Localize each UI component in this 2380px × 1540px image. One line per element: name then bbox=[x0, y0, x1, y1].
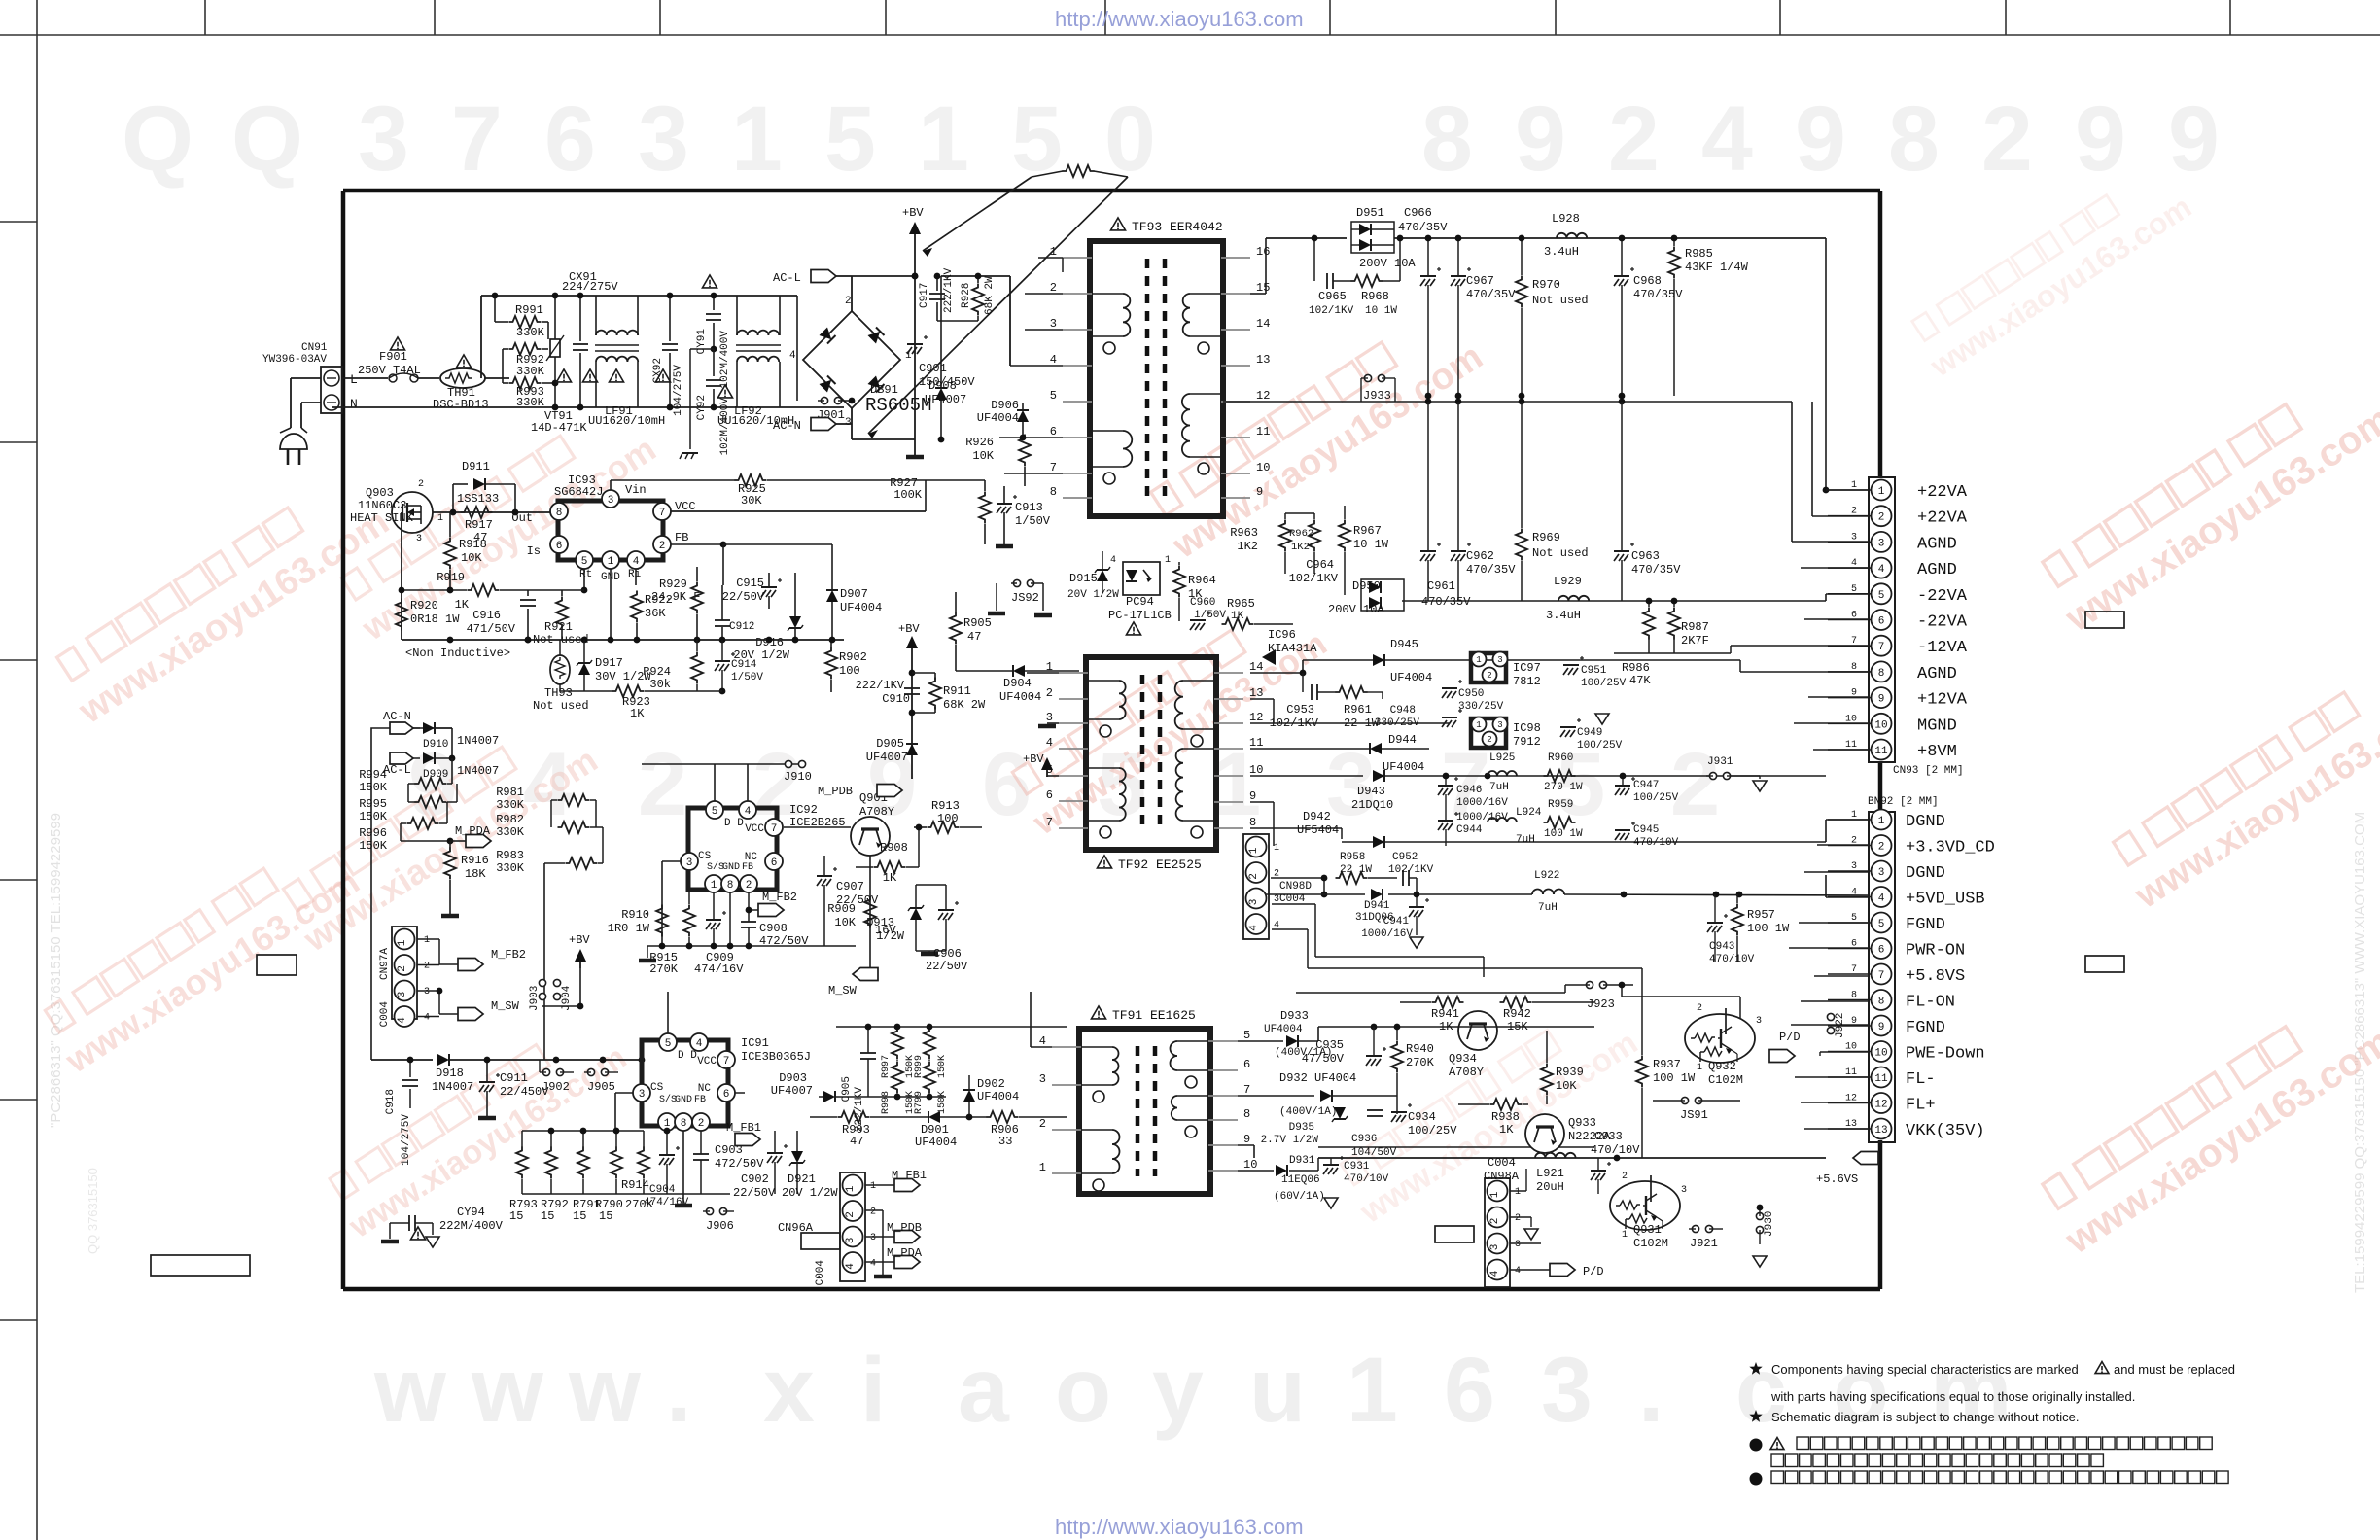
svg-text:2: 2 bbox=[1670, 735, 1720, 834]
svg-text:222/1KV: 222/1KV bbox=[856, 679, 905, 692]
svg-text:R957: R957 bbox=[1747, 908, 1775, 922]
svg-text:w: w bbox=[373, 1339, 447, 1442]
svg-text:3: 3 bbox=[416, 534, 422, 544]
svg-text:VKK(35V): VKK(35V) bbox=[1906, 1122, 1985, 1140]
svg-text:F901: F901 bbox=[379, 350, 407, 364]
svg-text:AGND: AGND bbox=[1917, 665, 1957, 683]
capacitor C907 bbox=[817, 875, 832, 877]
svg-text:1: 1 bbox=[1046, 660, 1053, 674]
svg-text:14D-471K: 14D-471K bbox=[531, 421, 587, 435]
svg-text:2: 2 bbox=[397, 965, 408, 972]
svg-text:C004: C004 bbox=[815, 1260, 826, 1286]
svg-text:2K7F: 2K7F bbox=[1681, 634, 1709, 647]
svg-text:C968: C968 bbox=[1633, 274, 1662, 288]
inductor L924 bbox=[1487, 818, 1517, 822]
wire bbox=[36, 0, 38, 1540]
svg-text:100/25V: 100/25V bbox=[1577, 740, 1623, 752]
svg-text:C904: C904 bbox=[649, 1184, 676, 1196]
svg-text:D908: D908 bbox=[928, 379, 957, 393]
svg-text:UF4007: UF4007 bbox=[925, 393, 966, 406]
svg-text:-22VA: -22VA bbox=[1917, 613, 1968, 632]
svg-text:2: 2 bbox=[1489, 1218, 1501, 1225]
svg-text:D942: D942 bbox=[1303, 810, 1331, 823]
svg-text:AGND: AGND bbox=[1917, 535, 1957, 553]
svg-text:15: 15 bbox=[1256, 281, 1270, 295]
wire bbox=[1795, 1076, 1869, 1078]
svg-text:4: 4 bbox=[1701, 87, 1753, 191]
svg-text:C901: C901 bbox=[919, 362, 947, 375]
svg-text:150K: 150K bbox=[359, 839, 388, 853]
svg-text:330K: 330K bbox=[496, 861, 525, 875]
svg-text:CS: CS bbox=[650, 1082, 664, 1094]
svg-text:3: 3 bbox=[1497, 720, 1502, 730]
svg-text:3: 3 bbox=[1248, 899, 1260, 906]
capacitor C935 bbox=[1366, 1055, 1382, 1057]
svg-text:P/D: P/D bbox=[1779, 1031, 1801, 1044]
svg-text:8: 8 bbox=[1878, 668, 1885, 680]
resistor R941 bbox=[1432, 997, 1464, 1008]
svg-text:C944: C944 bbox=[1456, 824, 1483, 836]
svg-text:1: 1 bbox=[918, 87, 969, 191]
svg-text:M_PDA: M_PDA bbox=[887, 1246, 923, 1260]
svg-text:FGND: FGND bbox=[1906, 916, 1945, 934]
svg-text:IC92: IC92 bbox=[789, 803, 818, 817]
svg-text:12: 12 bbox=[1874, 1099, 1887, 1110]
svg-text:GND: GND bbox=[722, 862, 740, 873]
svg-text:200V 10A: 200V 10A bbox=[1359, 257, 1416, 270]
svg-text:D943: D943 bbox=[1357, 785, 1385, 798]
svg-text:BN92 [2 MM]: BN92 [2 MM] bbox=[1868, 796, 1939, 808]
svg-text:R917: R917 bbox=[465, 518, 493, 532]
svg-text:6: 6 bbox=[1243, 1058, 1250, 1071]
svg-text:22/50V: 22/50V bbox=[926, 960, 968, 973]
svg-text:AC-N: AC-N bbox=[383, 710, 411, 723]
svg-text:7: 7 bbox=[1046, 816, 1053, 829]
jumper J930 bbox=[1756, 1212, 1763, 1219]
svg-text:C102M: C102M bbox=[1633, 1237, 1668, 1250]
svg-text:TF92 EE2525: TF92 EE2525 bbox=[1118, 857, 1202, 872]
svg-text:C004: C004 bbox=[379, 1001, 391, 1028]
svg-text:33: 33 bbox=[998, 1135, 1012, 1148]
svg-text:30k: 30k bbox=[649, 678, 671, 691]
svg-text:R909: R909 bbox=[827, 902, 856, 916]
svg-text:1: 1 bbox=[608, 556, 614, 568]
svg-text:200V 10A: 200V 10A bbox=[1328, 603, 1384, 616]
svg-text:5: 5 bbox=[1050, 389, 1057, 402]
svg-text:M_FB2: M_FB2 bbox=[491, 948, 526, 962]
svg-text:270K: 270K bbox=[649, 962, 679, 976]
svg-text:2: 2 bbox=[1274, 869, 1279, 880]
svg-text:Is: Is bbox=[527, 544, 541, 558]
svg-text:C960: C960 bbox=[1190, 597, 1215, 609]
svg-text:VCC: VCC bbox=[697, 1056, 717, 1067]
svg-text:6: 6 bbox=[1878, 944, 1885, 956]
svg-text:2: 2 bbox=[1487, 671, 1491, 681]
fuse F901 bbox=[390, 337, 404, 350]
svg-text:2: 2 bbox=[845, 1211, 857, 1218]
svg-text:3.4uH: 3.4uH bbox=[1544, 245, 1579, 259]
svg-text:C902: C902 bbox=[741, 1172, 769, 1186]
net flag bbox=[1853, 1152, 1878, 1165]
resistor R993 bbox=[509, 377, 542, 389]
svg-text:C933: C933 bbox=[1594, 1130, 1623, 1143]
svg-text:L928: L928 bbox=[1552, 212, 1580, 226]
svg-text:QQ 376315150: QQ 376315150 bbox=[86, 1168, 100, 1254]
svg-text:C910: C910 bbox=[882, 692, 910, 706]
resistor R937 bbox=[1636, 1056, 1648, 1088]
svg-text:C947: C947 bbox=[1633, 780, 1659, 791]
wire bbox=[1801, 1102, 1869, 1103]
svg-text:D935: D935 bbox=[1289, 1122, 1314, 1134]
svg-text:UF4004: UF4004 bbox=[915, 1136, 957, 1149]
svg-text:11N60C3: 11N60C3 bbox=[358, 499, 406, 512]
svg-text:7: 7 bbox=[1878, 642, 1885, 653]
svg-text:100: 100 bbox=[839, 664, 860, 678]
svg-text:D905: D905 bbox=[876, 737, 904, 751]
svg-text:2: 2 bbox=[1039, 1117, 1046, 1131]
svg-text:11EQ06: 11EQ06 bbox=[1281, 1174, 1320, 1186]
svg-text:3: 3 bbox=[845, 417, 852, 429]
svg-text:AC-N: AC-N bbox=[773, 419, 801, 433]
svg-text:AC-L: AC-L bbox=[383, 763, 411, 777]
svg-text:470/35V: 470/35V bbox=[1421, 595, 1471, 609]
svg-text:1R0 1W: 1R0 1W bbox=[608, 922, 650, 935]
svg-text:2: 2 bbox=[1515, 1213, 1521, 1224]
svg-text:R965: R965 bbox=[1227, 597, 1255, 611]
wire bbox=[1791, 402, 1793, 542]
svg-text:14: 14 bbox=[1249, 660, 1263, 674]
svg-text:C913: C913 bbox=[1015, 501, 1043, 514]
capacitor C931 bbox=[1323, 1164, 1339, 1166]
svg-text:5: 5 bbox=[1243, 1029, 1250, 1042]
svg-text:R982: R982 bbox=[496, 813, 524, 826]
svg-text:8: 8 bbox=[1050, 485, 1057, 499]
svg-text:R958: R958 bbox=[1340, 852, 1365, 863]
wire bbox=[1730, 646, 1732, 653]
svg-text:UF4004: UF4004 bbox=[977, 411, 1019, 425]
svg-text:3: 3 bbox=[1541, 1339, 1592, 1442]
svg-text:HEAT SINK: HEAT SINK bbox=[350, 511, 414, 525]
svg-text:+22VA: +22VA bbox=[1917, 509, 1968, 528]
svg-text:C102M: C102M bbox=[1708, 1073, 1743, 1087]
svg-text:JS92: JS92 bbox=[1011, 591, 1039, 605]
svg-text:1: 1 bbox=[731, 87, 783, 191]
svg-text:R938: R938 bbox=[1491, 1110, 1520, 1124]
svg-text:222/1KV: 222/1KV bbox=[943, 267, 955, 313]
capacitor C944 bbox=[1438, 820, 1453, 822]
svg-text:L925: L925 bbox=[1489, 752, 1515, 764]
svg-text:D901: D901 bbox=[921, 1123, 949, 1137]
svg-text:http://www.xiaoyu163.com: http://www.xiaoyu163.com bbox=[1055, 7, 1304, 31]
svg-text:2: 2 bbox=[870, 1207, 876, 1218]
svg-text:10 1W: 10 1W bbox=[1365, 305, 1397, 317]
svg-text:4: 4 bbox=[1110, 555, 1116, 566]
svg-text:UF5404: UF5404 bbox=[1297, 823, 1339, 837]
svg-text:D945: D945 bbox=[1390, 638, 1418, 651]
wire bbox=[1739, 660, 1741, 776]
svg-text:102M/400V: 102M/400V bbox=[719, 331, 731, 389]
svg-text:AC-L: AC-L bbox=[773, 271, 801, 285]
svg-text:5: 5 bbox=[1878, 590, 1885, 602]
svg-text:2: 2 bbox=[1248, 873, 1260, 880]
svg-text:R939: R939 bbox=[1556, 1066, 1584, 1079]
svg-text:Q: Q bbox=[231, 87, 303, 191]
svg-text:1K: 1K bbox=[630, 707, 645, 720]
svg-text:5: 5 bbox=[824, 87, 876, 191]
svg-text:C961: C961 bbox=[1427, 579, 1455, 593]
svg-text:NC: NC bbox=[745, 852, 758, 863]
power arrow bbox=[575, 949, 586, 962]
net flag bbox=[894, 1179, 920, 1192]
svg-text:1: 1 bbox=[1489, 1191, 1501, 1198]
svg-text:M_FB1: M_FB1 bbox=[892, 1169, 927, 1182]
transformer TF92 bbox=[1086, 657, 1216, 850]
wire bbox=[1791, 1024, 1869, 1026]
svg-text:3: 3 bbox=[1878, 538, 1885, 549]
svg-text:+8VM: +8VM bbox=[1917, 743, 1957, 761]
svg-text:C911: C911 bbox=[500, 1071, 528, 1085]
svg-text:VCC: VCC bbox=[745, 823, 764, 835]
svg-text:0R18 1W: 0R18 1W bbox=[410, 612, 460, 626]
svg-text:R970: R970 bbox=[1532, 278, 1560, 292]
svg-text:5: 5 bbox=[581, 556, 588, 568]
net flag bbox=[877, 785, 902, 797]
svg-text:C951: C951 bbox=[1581, 665, 1607, 677]
svg-text:C931: C931 bbox=[1344, 1161, 1370, 1172]
svg-text:100 1W: 100 1W bbox=[1653, 1071, 1696, 1085]
svg-text:D913: D913 bbox=[866, 916, 894, 929]
svg-text:6: 6 bbox=[771, 857, 778, 869]
svg-text:7812: 7812 bbox=[1513, 675, 1541, 688]
svg-text:2: 2 bbox=[746, 880, 752, 892]
svg-text:C962: C962 bbox=[1466, 549, 1494, 563]
svg-text:R999: R999 bbox=[914, 1055, 925, 1078]
svg-text:16: 16 bbox=[1256, 245, 1270, 259]
svg-text:2: 2 bbox=[1981, 87, 2033, 191]
wire bbox=[1801, 1000, 1869, 1002]
svg-text:7: 7 bbox=[771, 823, 778, 835]
svg-text:3: 3 bbox=[1039, 1072, 1046, 1086]
svg-text:10: 10 bbox=[1256, 461, 1270, 474]
net flag bbox=[458, 959, 483, 971]
svg-text:R924: R924 bbox=[643, 665, 671, 679]
svg-text:470/10V: 470/10V bbox=[1591, 1143, 1640, 1157]
svg-text:4: 4 bbox=[1248, 925, 1260, 931]
svg-text:D909: D909 bbox=[423, 769, 448, 781]
svg-text:UF4004: UF4004 bbox=[1382, 760, 1424, 774]
svg-text:R919: R919 bbox=[437, 571, 465, 584]
capacitor C901 bbox=[907, 343, 923, 345]
svg-text:102/1KV: 102/1KV bbox=[1388, 864, 1434, 876]
svg-text:L929: L929 bbox=[1554, 575, 1582, 588]
svg-text:R967: R967 bbox=[1353, 524, 1382, 538]
svg-text:and must be replaced: and must be replaced bbox=[2114, 1362, 2235, 1377]
ground bbox=[1250, 822, 1826, 823]
svg-text:+BV: +BV bbox=[1023, 752, 1044, 766]
svg-text:CN97A: CN97A bbox=[379, 948, 391, 980]
svg-text:C917: C917 bbox=[919, 283, 930, 308]
wire bbox=[1825, 238, 1827, 490]
svg-text:<Non Inductive>: <Non Inductive> bbox=[405, 647, 510, 660]
svg-text:15: 15 bbox=[509, 1209, 523, 1223]
svg-text:Q931: Q931 bbox=[1633, 1223, 1662, 1237]
svg-text:D932 UF4004: D932 UF4004 bbox=[1279, 1071, 1356, 1085]
svg-text:43KF 1/4W: 43KF 1/4W bbox=[1685, 261, 1749, 274]
svg-text:2: 2 bbox=[659, 541, 666, 552]
svg-text:R986: R986 bbox=[1622, 661, 1650, 675]
svg-text:J903: J903 bbox=[529, 986, 541, 1011]
svg-text:PWE-Down: PWE-Down bbox=[1906, 1045, 1985, 1064]
svg-text:5: 5 bbox=[1878, 919, 1885, 930]
svg-text:CY92: CY92 bbox=[696, 395, 708, 420]
svg-text:C941: C941 bbox=[1383, 916, 1410, 927]
svg-text:1SS133: 1SS133 bbox=[457, 492, 499, 506]
svg-text:DSC-BD13: DSC-BD13 bbox=[433, 398, 489, 411]
svg-text:3: 3 bbox=[1515, 1240, 1521, 1250]
diode D905 bbox=[906, 744, 918, 755]
svg-text:3: 3 bbox=[870, 1233, 876, 1243]
svg-text:J905: J905 bbox=[587, 1080, 615, 1094]
svg-text:3: 3 bbox=[1489, 1244, 1501, 1251]
svg-text:7: 7 bbox=[1243, 1083, 1250, 1097]
svg-text:3: 3 bbox=[1046, 711, 1053, 724]
svg-text:2: 2 bbox=[1697, 1003, 1702, 1014]
capacitor C949 bbox=[1560, 726, 1576, 728]
resistor R903 bbox=[838, 1111, 870, 1123]
svg-text:10: 10 bbox=[1874, 1047, 1887, 1059]
svg-text:R799: R799 bbox=[914, 1091, 925, 1114]
capacitor C910 bbox=[904, 687, 920, 689]
capacitor C948 bbox=[1442, 717, 1457, 718]
svg-text:R941: R941 bbox=[1431, 1007, 1459, 1021]
net flag bbox=[758, 904, 784, 917]
svg-text:A708Y: A708Y bbox=[1449, 1066, 1484, 1079]
wire bbox=[1820, 1051, 1869, 1053]
svg-text:M_SW: M_SW bbox=[828, 984, 857, 997]
svg-text:CY91: CY91 bbox=[696, 329, 708, 355]
svg-text:a: a bbox=[958, 1339, 1010, 1442]
svg-text:R997: R997 bbox=[881, 1055, 892, 1078]
inductor L922 bbox=[1532, 890, 1564, 894]
svg-text:IC91: IC91 bbox=[741, 1036, 769, 1050]
svg-text:100/25V: 100/25V bbox=[1408, 1124, 1457, 1137]
wire bbox=[1804, 1128, 1869, 1130]
svg-text:7uH: 7uH bbox=[1516, 834, 1535, 846]
svg-text:M_PDB: M_PDB bbox=[887, 1221, 922, 1235]
svg-text:R961: R961 bbox=[1344, 703, 1372, 717]
svg-text:D911: D911 bbox=[462, 460, 490, 473]
wire bbox=[402, 639, 844, 641]
svg-text:J921: J921 bbox=[1690, 1237, 1718, 1250]
svg-text:4: 4 bbox=[1050, 353, 1057, 367]
net flag bbox=[390, 752, 413, 764]
capacitor C953 bbox=[1311, 684, 1312, 700]
svg-text:IC97: IC97 bbox=[1513, 661, 1541, 675]
svg-text:R921: R921 bbox=[544, 620, 573, 634]
svg-text:10K: 10K bbox=[461, 551, 482, 565]
svg-text:AGND: AGND bbox=[1917, 561, 1957, 579]
svg-text:D921: D921 bbox=[787, 1172, 816, 1186]
svg-text:+5.8VS: +5.8VS bbox=[1906, 967, 1965, 986]
svg-text:0: 0 bbox=[1104, 87, 1156, 191]
svg-text:PC-17L1CB: PC-17L1CB bbox=[1108, 609, 1172, 622]
svg-text:UU1620/10mH: UU1620/10mH bbox=[588, 414, 665, 428]
svg-text:4: 4 bbox=[745, 806, 752, 818]
svg-text:D933: D933 bbox=[1280, 1009, 1309, 1023]
svg-text:(400V/1A): (400V/1A) bbox=[1275, 1047, 1332, 1059]
wire bbox=[1817, 844, 1869, 846]
svg-text:470/10V: 470/10V bbox=[1344, 1173, 1389, 1185]
svg-text:D951: D951 bbox=[1356, 206, 1384, 220]
svg-text:13: 13 bbox=[1256, 353, 1270, 367]
net flag bbox=[1769, 1050, 1795, 1063]
wire bbox=[1825, 845, 1827, 875]
svg-text:11: 11 bbox=[1256, 425, 1270, 438]
svg-text:+3.3VD_CD: +3.3VD_CD bbox=[1906, 839, 1995, 857]
svg-text:C918: C918 bbox=[385, 1089, 397, 1114]
net flag bbox=[466, 835, 491, 848]
svg-text:R926: R926 bbox=[965, 436, 994, 449]
svg-text:R908: R908 bbox=[880, 841, 908, 855]
svg-text:20V 1/2W: 20V 1/2W bbox=[1067, 589, 1119, 601]
svg-text:8: 8 bbox=[1249, 816, 1256, 829]
resistor R939 bbox=[1541, 1064, 1553, 1096]
svg-text:1: 1 bbox=[1476, 720, 1481, 730]
svg-text:470/10V: 470/10V bbox=[1633, 837, 1679, 849]
svg-text:Q: Q bbox=[122, 87, 193, 191]
svg-text:4: 4 bbox=[397, 1017, 408, 1024]
svg-text:IC98: IC98 bbox=[1513, 721, 1541, 735]
svg-text:8: 8 bbox=[727, 880, 734, 892]
svg-text:Vin: Vin bbox=[625, 483, 647, 497]
svg-text:12: 12 bbox=[1249, 711, 1263, 724]
svg-text:y: y bbox=[1152, 1339, 1204, 1442]
svg-text:1K: 1K bbox=[455, 598, 470, 612]
svg-text:CS: CS bbox=[698, 851, 712, 862]
svg-text:470/35V: 470/35V bbox=[1633, 288, 1683, 301]
svg-text:4: 4 bbox=[870, 1259, 876, 1270]
svg-text:D903: D903 bbox=[779, 1071, 807, 1085]
svg-text:J930: J930 bbox=[1764, 1211, 1775, 1237]
svg-text:4: 4 bbox=[1489, 1270, 1501, 1277]
svg-text:8: 8 bbox=[1888, 87, 1940, 191]
svg-text:1: 1 bbox=[1039, 1161, 1046, 1174]
resistor R960 bbox=[1544, 770, 1576, 782]
svg-text:470/35V: 470/35V bbox=[1466, 563, 1516, 577]
svg-text:100: 100 bbox=[937, 812, 959, 825]
svg-text:+BV: +BV bbox=[898, 622, 920, 636]
power arrow bbox=[1041, 757, 1053, 770]
svg-text:102/1KV: 102/1KV bbox=[1289, 572, 1339, 585]
svg-text:7: 7 bbox=[723, 1056, 730, 1067]
inductor L929 bbox=[1558, 596, 1589, 601]
svg-text:D917: D917 bbox=[595, 656, 623, 670]
resistor R909 bbox=[864, 896, 876, 928]
svg-text:R905: R905 bbox=[963, 616, 992, 630]
svg-text:36K: 36K bbox=[645, 607, 666, 620]
svg-text:UF4004: UF4004 bbox=[840, 601, 882, 614]
svg-text:7uH: 7uH bbox=[1489, 782, 1509, 793]
capacitor C915 bbox=[761, 586, 777, 588]
svg-text:9: 9 bbox=[1878, 694, 1885, 706]
svg-text:C906: C906 bbox=[933, 947, 962, 961]
svg-text:GND: GND bbox=[675, 1095, 692, 1105]
svg-text:R987: R987 bbox=[1681, 620, 1709, 634]
svg-text:2: 2 bbox=[1622, 1172, 1627, 1182]
svg-text:MGND: MGND bbox=[1917, 717, 1957, 735]
svg-text:47: 47 bbox=[967, 630, 981, 644]
svg-text:R911: R911 bbox=[943, 684, 971, 698]
